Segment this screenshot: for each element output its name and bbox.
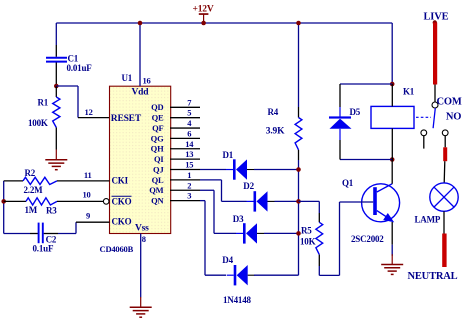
svg-text:14: 14: [185, 139, 194, 149]
svg-text:COM: COM: [437, 96, 462, 107]
svg-text:13: 13: [185, 149, 193, 159]
svg-text:R2: R2: [25, 168, 36, 178]
svg-text:3.9K: 3.9K: [266, 127, 285, 137]
svg-text:15: 15: [185, 160, 193, 170]
svg-text:QI: QI: [154, 154, 164, 164]
svg-text:QE: QE: [152, 113, 164, 123]
svg-text:CKO: CKO: [112, 217, 132, 227]
svg-text:RESET: RESET: [111, 114, 142, 124]
svg-text:3: 3: [187, 191, 191, 201]
svg-text:16: 16: [143, 76, 151, 86]
svg-text:R1: R1: [38, 98, 49, 108]
svg-text:0.1uF: 0.1uF: [33, 244, 54, 254]
svg-text:CKI: CKI: [112, 175, 129, 185]
svg-text:12: 12: [85, 107, 93, 117]
svg-text:11: 11: [84, 170, 92, 180]
svg-text:10K: 10K: [300, 236, 316, 246]
svg-text:10: 10: [82, 189, 90, 199]
svg-text:QJ: QJ: [153, 164, 164, 174]
svg-text:CKO: CKO: [112, 197, 132, 207]
svg-text:0.01uF: 0.01uF: [67, 63, 93, 73]
svg-text:NO: NO: [446, 112, 461, 123]
svg-text:D2: D2: [243, 181, 254, 191]
svg-text:6: 6: [187, 128, 191, 138]
svg-text:100K: 100K: [28, 118, 48, 128]
svg-text:D1: D1: [223, 150, 234, 160]
svg-text:R5: R5: [301, 225, 312, 235]
svg-text:Q1: Q1: [342, 178, 354, 188]
svg-text:QL: QL: [152, 175, 164, 185]
svg-text:QN: QN: [151, 196, 164, 206]
svg-text:R4: R4: [268, 107, 279, 117]
svg-text:D5: D5: [350, 107, 361, 117]
svg-text:K1: K1: [403, 87, 415, 97]
svg-text:R3: R3: [46, 206, 57, 216]
svg-text:QF: QF: [152, 123, 163, 133]
svg-text:CD4060B: CD4060B: [100, 244, 134, 254]
svg-text:1N4148: 1N4148: [223, 295, 251, 305]
svg-text:U1: U1: [122, 73, 133, 83]
svg-text:8: 8: [142, 234, 146, 244]
svg-text:LAMP: LAMP: [415, 214, 441, 224]
svg-text:D4: D4: [222, 255, 233, 265]
svg-text:2: 2: [187, 180, 191, 190]
svg-text:2.2M: 2.2M: [24, 185, 44, 195]
svg-text:+12V: +12V: [193, 5, 214, 15]
svg-text:NEUTRAL: NEUTRAL: [408, 271, 458, 282]
svg-text:2SC2002: 2SC2002: [351, 234, 384, 244]
svg-text:QG: QG: [151, 133, 164, 143]
svg-text:Vdd: Vdd: [132, 88, 150, 98]
svg-text:5: 5: [187, 108, 191, 118]
svg-text:QH: QH: [151, 144, 164, 154]
svg-text:QD: QD: [151, 102, 163, 112]
svg-text:9: 9: [86, 211, 90, 221]
svg-text:D3: D3: [233, 214, 244, 224]
svg-text:1: 1: [187, 170, 191, 180]
svg-text:QM: QM: [149, 185, 163, 195]
svg-text:Vss: Vss: [135, 224, 149, 234]
svg-text:1M: 1M: [25, 205, 38, 215]
svg-text:C1: C1: [68, 53, 79, 63]
